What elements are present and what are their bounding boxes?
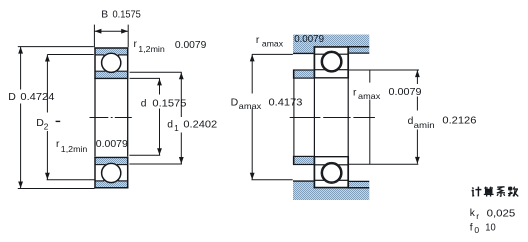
ramax leader tick [369, 70, 371, 83]
ball [322, 52, 341, 71]
inner ring (blue) [95, 71, 129, 78]
dimension d extension lines [130, 77, 160, 79]
svg-text:0.1575: 0.1575 [113, 10, 142, 21]
outer ring shoulders [315, 53, 324, 55]
inner ring shoulders [315, 69, 325, 71]
housing bore line (bottom right) [347, 187, 370, 189]
svg-text:1,2min: 1,2min [61, 144, 88, 154]
inner ring shoulder lines [95, 164, 105, 166]
svg-text:d: d [408, 116, 414, 127]
svg-text:r: r [56, 139, 60, 150]
outer ring shoulder lines [95, 180, 104, 182]
svg-text:r: r [256, 35, 260, 46]
dimension d1 extension lines [130, 71, 182, 73]
housing block (bottom band, blue) [293, 188, 369, 200]
inner ring shoulder lines [95, 70, 105, 72]
svg-text:0.0079: 0.0079 [389, 87, 422, 98]
svg-text:0: 0 [474, 225, 479, 235]
section interior (white) [314, 156, 348, 188]
section outline [314, 187, 349, 189]
outer ring shoulder lines [95, 54, 104, 56]
housing shoulder strip top-right (blue) [349, 48, 369, 53]
dimension damin line [415, 70, 420, 77]
svg-text:0.4173: 0.4173 [269, 97, 303, 109]
svg-text:0.0079: 0.0079 [294, 34, 324, 45]
raceway groove clearance [101, 52, 122, 73]
housing shoulder strip bottom-right (blue) [349, 182, 369, 187]
shaft shoulder bottom (blue) [294, 156, 315, 164]
dimension D extension lines [18, 46, 94, 48]
svg-text:0.2126: 0.2126 [442, 116, 476, 127]
svg-text:k: k [470, 208, 476, 219]
dimension B line [94, 30, 128, 32]
dimension d line [159, 78, 161, 94]
section outline [94, 187, 128, 189]
land edge marks [103, 177, 105, 181]
left centerline (axis) [90, 117, 132, 119]
right centerline (axis) [290, 117, 375, 119]
section outline [94, 47, 128, 49]
da abutment extension line (top) [349, 69, 419, 71]
outer ring (blue) [95, 48, 129, 56]
raceway groove clearance [101, 163, 122, 184]
inner ring (blue) [95, 157, 129, 164]
svg-text:f: f [470, 223, 473, 234]
raceway circle [321, 51, 342, 72]
svg-text:amax: amax [239, 101, 263, 111]
svg-text:0.0079: 0.0079 [96, 139, 128, 150]
ball [102, 163, 121, 182]
dimension B extension lines [93, 25, 95, 48]
dimension Damax extension lines [252, 53, 293, 55]
svg-text:D: D [231, 97, 239, 109]
dimension Damax line [251, 54, 253, 93]
shaft shoulder top (blue) [294, 70, 315, 78]
ball [102, 53, 121, 72]
inner ring shoulders [315, 164, 325, 166]
svg-text:r: r [134, 39, 138, 50]
housing block (top band, blue) [293, 35, 369, 47]
dimension D2 line [46, 55, 48, 113]
da abutment extension line (bottom) [349, 163, 418, 165]
housing bore line (top right) [347, 46, 370, 48]
shaft/housing cut edge line [293, 70, 295, 165]
ball [322, 164, 341, 183]
svg-text:10: 10 [485, 223, 496, 234]
svg-text:d: d [167, 119, 173, 130]
right bearing bore silhouette lines [313, 78, 315, 156]
svg-text:amax: amax [358, 91, 381, 101]
heading 计算系数 (calculation factors) [472, 187, 482, 197]
svg-text:2: 2 [44, 122, 49, 132]
housing shoulder bottom-left (blue) [293, 181, 314, 200]
dimension d1 line [180, 72, 182, 117]
svg-text:1,2min: 1,2min [138, 44, 165, 54]
section outline [314, 46, 349, 48]
svg-text:r: r [476, 211, 479, 221]
svg-text:B: B [101, 9, 108, 20]
dimension D line [20, 47, 22, 90]
section interior (white) [314, 46, 348, 78]
svg-text:r: r [353, 87, 357, 98]
svg-text:amin: amin [414, 120, 435, 130]
svg-text:0.0079: 0.0079 [175, 40, 207, 51]
outer ring shoulders [315, 179, 324, 181]
svg-text:0,025: 0,025 [487, 208, 516, 219]
outer ring (blue) [95, 181, 129, 189]
svg-text:0.4724: 0.4724 [20, 91, 54, 103]
svg-text:D: D [8, 91, 16, 103]
svg-text:amax: amax [262, 38, 284, 48]
left bearing outer-surface silhouette lines [94, 79, 96, 157]
raceway circle [321, 162, 342, 183]
dimension D2 extension lines [47, 54, 93, 56]
svg-text:1: 1 [174, 123, 179, 133]
svg-text:0.2402: 0.2402 [183, 119, 217, 130]
land edge marks [103, 55, 105, 59]
svg-text:d: d [141, 98, 147, 109]
housing shoulder top-left (blue) [293, 35, 314, 54]
